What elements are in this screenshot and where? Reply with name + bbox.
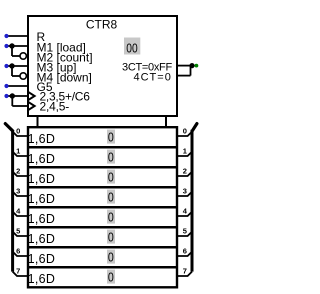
- splitter left leg bit 0: [13, 132, 28, 136]
- svg-text:0: 0: [108, 151, 114, 165]
- counter U1 (CTR8) control block body: [28, 16, 177, 116]
- value display 00: [124, 38, 140, 55]
- splitter right leg bit 5: [176, 232, 192, 236]
- cell array outline: [28, 127, 177, 287]
- svg-text:1,6D: 1,6D: [28, 272, 56, 286]
- svg-text:6: 6: [16, 246, 20, 255]
- inverter bubble M2: [20, 53, 26, 59]
- splitter left leg bit 1: [13, 152, 28, 156]
- svg-text:1,6D: 1,6D: [28, 152, 56, 166]
- neck right between control block and cell array: [165, 116, 167, 127]
- svg-text:1,6D: 1,6D: [28, 212, 56, 226]
- svg-text:3: 3: [183, 186, 187, 195]
- node M1 unconnected endpoint: [4, 44, 8, 48]
- junction M3/M4: [9, 63, 14, 68]
- wire 4CT output: [176, 75, 191, 77]
- svg-text:0: 0: [108, 191, 114, 205]
- node R unconnected endpoint: [4, 34, 8, 38]
- wire M3 to M4 vertical: [11, 66, 13, 76]
- junction M1/M2: [9, 43, 14, 48]
- splitter left leg bit 7: [13, 272, 28, 276]
- wire C6 to down-clock vertical: [11, 96, 13, 106]
- svg-text:0: 0: [108, 271, 114, 285]
- wire 4CT up to junction: [190, 65, 192, 76]
- svg-text:0: 0: [108, 251, 114, 265]
- svg-text:4: 4: [183, 206, 188, 215]
- cell 6 value display: [107, 250, 115, 264]
- cell separator 2: [27, 166, 178, 169]
- junction C6/down-clock: [10, 93, 15, 98]
- splitter right leg bit 6: [176, 252, 192, 256]
- wire 3CT output: [176, 65, 192, 67]
- cell 4 value display: [107, 210, 115, 224]
- cell separator 5: [27, 226, 178, 229]
- wire M2 input: [12, 55, 20, 57]
- svg-text:5: 5: [183, 226, 187, 235]
- wire G5 input: [7, 85, 29, 87]
- svg-text:2,4,5-: 2,4,5-: [40, 100, 70, 114]
- svg-text:0: 0: [183, 126, 187, 135]
- cell separator 3: [27, 186, 178, 189]
- cell separator 6: [27, 246, 178, 249]
- cell separator 4: [27, 206, 178, 209]
- splitter right spine vertical: [191, 130, 194, 272]
- wire C6 clock input: [7, 95, 28, 97]
- cell separator 1: [27, 146, 178, 149]
- svg-text:0: 0: [16, 126, 20, 135]
- node G5 unconnected endpoint: [4, 84, 8, 88]
- svg-text:1,6D: 1,6D: [28, 192, 56, 206]
- wire M1 input: [7, 45, 29, 47]
- svg-text:5: 5: [16, 226, 20, 235]
- splitter left spine diagonal: [5, 124, 12, 131]
- cell 1 value display: [107, 150, 115, 164]
- splitter left leg bit 5: [13, 232, 28, 236]
- dynamic input triangle down-clock: [28, 102, 35, 111]
- svg-text:4: 4: [16, 206, 21, 215]
- svg-text:1,6D: 1,6D: [28, 232, 56, 246]
- cell 2 value display: [107, 170, 115, 184]
- splitter right leg bit 7: [176, 272, 192, 276]
- wire M3 input: [7, 65, 29, 67]
- splitter left leg bit 6: [13, 252, 28, 256]
- svg-text:00: 00: [126, 43, 137, 56]
- inverter bubble M4: [20, 73, 26, 79]
- splitter right leg bit 1: [176, 152, 192, 156]
- cell separator 7: [27, 266, 178, 269]
- svg-text:7: 7: [183, 266, 187, 275]
- splitter left leg bit 4: [13, 212, 28, 216]
- neck left between control block and cell array: [37, 116, 39, 127]
- svg-text:0: 0: [108, 231, 114, 245]
- wire M4 input: [12, 75, 20, 77]
- svg-text:4CT=0: 4CT=0: [134, 72, 172, 84]
- svg-text:1: 1: [16, 146, 20, 155]
- wire down-clock input: [12, 105, 27, 107]
- dynamic input triangle C6: [28, 92, 35, 101]
- cell 3 value display: [107, 190, 115, 204]
- svg-text:1,6D: 1,6D: [28, 172, 56, 186]
- junction 3CT/4CT: [189, 63, 194, 68]
- cell 7 value display: [107, 270, 115, 284]
- svg-text:CTR8: CTR8: [86, 18, 118, 32]
- splitter left spine vertical: [11, 130, 14, 272]
- svg-text:0: 0: [108, 131, 114, 145]
- svg-text:0: 0: [108, 211, 114, 225]
- svg-text:1: 1: [183, 146, 187, 155]
- splitter right leg bit 4: [176, 212, 192, 216]
- svg-text:7: 7: [16, 266, 20, 275]
- node M3 unconnected endpoint: [4, 64, 8, 68]
- svg-text:0: 0: [108, 171, 114, 185]
- splitter right leg bit 2: [176, 172, 192, 176]
- svg-text:1,6D: 1,6D: [28, 252, 56, 266]
- splitter right leg bit 0: [176, 132, 192, 136]
- splitter left leg bit 3: [13, 192, 28, 196]
- svg-text:3: 3: [16, 186, 20, 195]
- wire R input: [7, 35, 29, 37]
- svg-text:1,6D: 1,6D: [28, 132, 56, 146]
- cell 0 value display: [107, 130, 115, 144]
- node C6 unconnected endpoint: [4, 94, 8, 98]
- svg-text:2: 2: [183, 166, 187, 175]
- cell 5 value display: [107, 230, 115, 244]
- splitter right spine diagonal: [192, 124, 197, 132]
- splitter right leg bit 3: [176, 192, 192, 196]
- node output endpoint (green): [195, 64, 199, 68]
- splitter left leg bit 2: [13, 172, 28, 176]
- svg-text:2: 2: [16, 166, 20, 175]
- wire M1 to M2 vertical: [11, 46, 13, 56]
- svg-text:6: 6: [183, 246, 187, 255]
